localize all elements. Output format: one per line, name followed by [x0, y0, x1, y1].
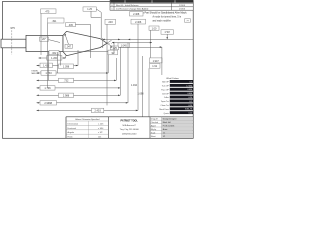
svg-text:1.260: 1.260: [51, 57, 58, 60]
svg-text:2.408: 2.408: [133, 13, 140, 16]
svg-text:Acme: Acme: [163, 128, 168, 131]
dim box .92: [108, 50, 118, 55]
svg-text:.975: .975: [10, 26, 16, 30]
dim box .047 with leader to chamfer corner: [65, 44, 73, 48]
svg-text:1.433: 1.433: [43, 65, 50, 68]
svg-text:.062: .062: [52, 52, 57, 55]
svg-text:Dimensional: Dimensional: [68, 123, 79, 125]
svg-text:2.406: 2.406: [135, 21, 142, 24]
vertical dimension line: [137, 24, 139, 110]
dim box 1.91: [150, 64, 161, 69]
svg-text:2.9998: 2.9998: [44, 102, 52, 105]
dimension arrowheads: [37, 37, 169, 111]
svg-text:(555)555-0000: (555)555-0000: [122, 133, 137, 135]
svg-text:.92: .92: [111, 52, 115, 55]
dim box 2.406: [131, 19, 146, 24]
rows: [162, 80, 193, 84]
svg-text:Taper Trn: Taper Trn: [161, 100, 169, 103]
svg-text:What IS done: What IS done: [166, 77, 179, 80]
leader from 20deg box: [49, 40, 61, 43]
drawing frame border: [3, 2, 194, 139]
right datum vertical extension lines: [107, 55, 109, 73]
left vertical extension lines: [65, 56, 67, 58]
chain dimension row 1: [39, 56, 66, 61]
svg-text:Fractional: Fractional: [68, 127, 77, 130]
svg-text:508 Avenue P: 508 Avenue P: [122, 124, 136, 127]
dark header band of revision table: [110, 0, 193, 3]
leader bracket for 1.25: [91, 11, 101, 17]
svg-text:0.24: 0.24: [189, 97, 193, 99]
svg-text:Drwg.off: Drwg.off: [151, 119, 158, 121]
svg-text:0.5: 0.5: [190, 81, 193, 83]
svg-text:.203: .203: [108, 21, 113, 24]
svg-text:1:1: 1:1: [163, 132, 166, 134]
svg-text:Turn OP: Turn OP: [162, 85, 170, 88]
drawing info block right: [150, 117, 193, 139]
tip crossing extension ticks: [107, 40, 112, 46]
svg-text:Tiny City, NY 00000: Tiny City, NY 00000: [120, 128, 140, 131]
svg-text:± 1/64: ± 1/64: [98, 128, 103, 130]
dim box .125: [111, 46, 119, 50]
svg-text:1/1: 1/1: [163, 136, 166, 138]
dim box .491: [47, 18, 64, 23]
svg-text:0.004: 0.004: [187, 93, 192, 95]
dim box 20deg: [40, 37, 49, 41]
svg-text:1.733: 1.733: [45, 72, 52, 75]
dim box 2.408: [130, 12, 144, 16]
svg-text:1.698: 1.698: [138, 92, 145, 95]
chain dimension row 7: [37, 101, 129, 105]
right dim line y=47.5: [110, 47, 162, 49]
note top right two lines: [153, 16, 191, 23]
svg-text:Bolt OP: Bolt OP: [162, 81, 169, 84]
svg-text:Black Jeff: Black Jeff: [163, 122, 171, 124]
title block verticals: [65, 117, 67, 139]
svg-text:Checked: Checked: [151, 122, 158, 124]
svg-text:PATRIOT TOOL: PATRIOT TOOL: [120, 120, 138, 123]
dim box .045 above nose with leader: [66, 23, 76, 27]
dim box 1.25 top with leader: [83, 7, 96, 11]
svg-text:1.25: 1.25: [87, 8, 92, 11]
svg-text:1.494: 1.494: [131, 84, 138, 87]
extension from .203 down: [106, 24, 108, 39]
chain dimension row 4: [37, 78, 117, 82]
chain dimension row 6: [37, 93, 121, 97]
svg-text:2/1/05: 2/1/05: [179, 9, 186, 11]
svg-text:6.1: 6.1: [190, 101, 193, 103]
centerline: [1, 43, 115, 45]
svg-text:Sheet: Sheet: [151, 135, 156, 138]
dim box 1deg40 with arrow down: [161, 30, 174, 34]
dim box 1.947: [150, 58, 163, 63]
svg-text:Drill OP: Drill OP: [162, 92, 169, 95]
svg-text:.047: .047: [66, 45, 71, 48]
svg-text:1°40': 1°40': [164, 31, 170, 34]
shaft: thin rod section: [1, 39, 26, 48]
dim box 1.045: [118, 43, 130, 47]
tolerance block: [66, 118, 109, 139]
dim box 1.00: [149, 26, 159, 30]
svg-text:1/1/05: 1/1/05: [179, 5, 186, 7]
svg-text:0.24: 0.24: [189, 105, 193, 107]
svg-text:Finish: Finish: [68, 137, 73, 139]
svg-text:± .005: ± .005: [98, 123, 103, 125]
chain dimension row 3: [37, 71, 109, 75]
body bottom extension line to .92: [63, 51, 108, 53]
dim box .062 below body: [49, 50, 59, 54]
sheet background: [0, 0, 195, 140]
svg-text:6061-T6: 6061-T6: [185, 109, 192, 111]
svg-text:A mode for turned lines, 5 in: A mode for turned lines, 5 in: [153, 16, 182, 19]
extension line down to title block: [142, 56, 144, 117]
svg-text:.045: .045: [68, 24, 73, 27]
right vertical extension lines: [113, 44, 115, 54]
svg-text:Apprd: Apprd: [151, 125, 156, 128]
dim box .475 top left: [41, 9, 56, 14]
svg-text:.732: .732: [64, 80, 69, 83]
shaft: body section: [26, 35, 63, 51]
svg-text:1.947: 1.947: [153, 60, 160, 63]
svg-text:1.00: 1.00: [152, 27, 157, 30]
svg-text:.475: .475: [45, 10, 50, 13]
chain dimension row 5: [37, 86, 121, 90]
svg-text:Face OP: Face OP: [161, 89, 169, 91]
svg-text:± 1/2°: ± 1/2°: [98, 132, 103, 134]
svg-text:0.00: 0.00: [189, 113, 193, 115]
svg-text:1.91: 1.91: [152, 65, 157, 68]
revision table top right: [110, 0, 193, 10]
svg-text:Cham Trn: Cham Trn: [160, 104, 168, 107]
svg-text:Scale: Scale: [151, 132, 156, 134]
svg-text:0.004: 0.004: [187, 89, 192, 91]
svg-text:Rev 00 - Initial Release: Rev 00 - Initial Release: [116, 4, 139, 7]
title block top line: [66, 116, 193, 118]
svg-text:Collar: Collar: [164, 96, 169, 99]
svg-text:Mach Desc: Mach Desc: [159, 109, 169, 111]
svg-text:Angular: Angular: [68, 131, 75, 134]
svg-text:1st Revision Change Note Added: 1st Revision Change Note Added: [116, 8, 149, 11]
svg-text:1.796: 1.796: [44, 87, 51, 90]
svg-text:Unless Otherwise Specified: Unless Otherwise Specified: [75, 118, 99, 121]
svg-text:Mfg by: Mfg by: [151, 129, 156, 131]
svg-text:George Designer: George Designer: [163, 119, 177, 121]
svg-text:.491: .491: [52, 20, 57, 23]
right dim line y=39.4: [103, 38, 194, 40]
chain dimension row 8 overall: [37, 108, 139, 113]
svg-text:Quote: Quote: [164, 112, 169, 115]
machining operations table right: [159, 77, 193, 115]
svg-text:2.403: 2.403: [94, 110, 101, 113]
svg-text:17.094: 17.094: [186, 85, 192, 87]
chain dimension row 2: [37, 63, 79, 68]
dim box .203: [105, 19, 116, 24]
svg-text:.125: .125: [112, 47, 117, 50]
svg-text:1.045: 1.045: [121, 44, 128, 47]
shaft: tapered nose with point: [63, 31, 107, 55]
right dim line y=42.6: [112, 42, 152, 44]
svg-text:F.O.B. 12/3/05: F.O.B. 12/3/05: [163, 126, 175, 128]
svg-text:1.398: 1.398: [63, 66, 70, 69]
svg-text:and each modifier: and each modifier: [153, 19, 171, 22]
company block: [120, 120, 140, 136]
svg-text:20°: 20°: [42, 38, 46, 41]
svg-text:125: 125: [98, 137, 101, 139]
svg-text:2.988: 2.988: [63, 95, 70, 98]
